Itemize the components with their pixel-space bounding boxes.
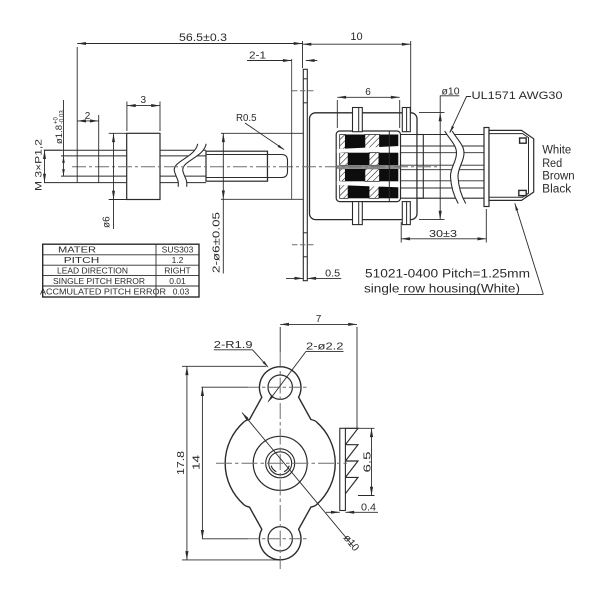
svg-text:56.5±0.3: 56.5±0.3 (179, 32, 227, 44)
svg-text:14: 14 (192, 454, 203, 470)
svg-text:2-ø6±0.05: 2-ø6±0.05 (212, 211, 223, 273)
svg-text:Red: Red (542, 158, 562, 170)
svg-text:SUS303: SUS303 (162, 245, 194, 255)
svg-text:2-1: 2-1 (249, 49, 266, 61)
svg-text:RIGHT: RIGHT (164, 266, 190, 276)
svg-text:3: 3 (141, 95, 147, 106)
svg-text:10: 10 (350, 31, 362, 43)
svg-text:UL1571 AWG30: UL1571 AWG30 (472, 90, 563, 102)
svg-text:R0.5: R0.5 (236, 113, 257, 124)
svg-text:SINGLE PITCH ERROR: SINGLE PITCH ERROR (53, 276, 145, 286)
svg-text:Black: Black (542, 184, 571, 196)
svg-text:17.8: 17.8 (176, 450, 187, 475)
svg-text:2-R1.9: 2-R1.9 (214, 339, 253, 351)
svg-text:PITCH: PITCH (64, 255, 100, 265)
svg-text:ACCMULATED PITCH ERROR: ACCMULATED PITCH ERROR (40, 287, 166, 297)
svg-text:0.4: 0.4 (361, 503, 376, 514)
svg-text:7: 7 (316, 314, 322, 325)
svg-text:2-ø2.2: 2-ø2.2 (306, 341, 344, 353)
svg-text:0.01: 0.01 (169, 276, 186, 286)
svg-text:ø6: ø6 (102, 216, 113, 228)
svg-text:White: White (542, 145, 571, 157)
svg-text:6: 6 (365, 87, 371, 98)
svg-text:2: 2 (85, 111, 91, 122)
svg-text:6.5: 6.5 (363, 451, 374, 473)
svg-text:0.5: 0.5 (325, 268, 340, 279)
svg-text:-0.03: -0.03 (60, 110, 66, 124)
svg-text:ø1.8: ø1.8 (54, 125, 65, 144)
svg-text:51021-0400 Pitch=1.25mm: 51021-0400 Pitch=1.25mm (365, 269, 530, 281)
svg-text:single row housing(White): single row housing(White) (364, 283, 520, 295)
svg-text:LEAD DIRECTION: LEAD DIRECTION (57, 266, 128, 276)
svg-text:0.03: 0.03 (173, 287, 190, 297)
svg-text:30±3: 30±3 (429, 228, 457, 240)
svg-text:M 3×P1,2: M 3×P1,2 (34, 139, 45, 191)
svg-text:Brown: Brown (542, 171, 575, 183)
svg-text:MATER: MATER (58, 245, 96, 255)
svg-text:1.2: 1.2 (172, 255, 184, 265)
